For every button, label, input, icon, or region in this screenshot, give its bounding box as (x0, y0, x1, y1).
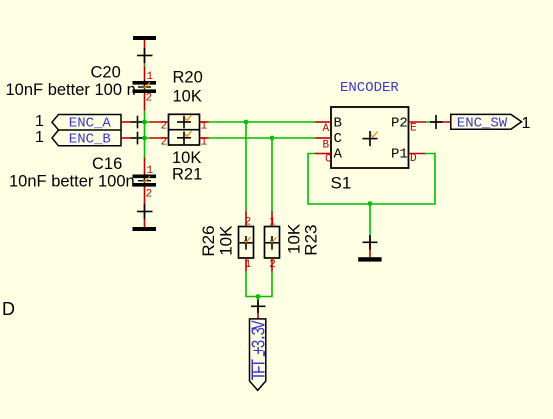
node junction ENC_B to R23 (270, 136, 275, 141)
R20 pin 1 (200, 121, 209, 123)
capacitor C16 (9, 155, 156, 227)
svg-text:1: 1 (245, 259, 252, 271)
svg-text:R23: R23 (302, 225, 321, 256)
node ENC_A junction (142, 120, 147, 125)
R21 pin 1 (200, 137, 209, 139)
svg-text:D: D (410, 153, 417, 165)
svg-text:ENC_B: ENC_B (69, 132, 111, 148)
resistor R23 (vertical) (265, 211, 321, 272)
capacitor C20 (6, 64, 157, 111)
ENC_B origin cross (131, 137, 144, 139)
svg-text:E: E (410, 122, 417, 134)
wire (C20 pin 2 down to ENC_A node) (144, 111, 146, 123)
C16 bottom plate (133, 183, 157, 187)
wire (junction down to GND) (369, 204, 371, 237)
C16 origin cross (138, 180, 151, 182)
svg-text:1: 1 (201, 137, 208, 149)
R20 pin 2 (150, 121, 169, 123)
R23 origin cross (266, 242, 279, 244)
resistor R20 pins and labels (150, 69, 209, 133)
svg-text:P2: P2 (391, 115, 408, 131)
svg-text:2: 2 (146, 189, 153, 201)
wire (ENC_A node to R20 pin 2) (145, 121, 150, 123)
S1 pin P1 stub (409, 153, 426, 155)
svg-text:D: D (2, 299, 15, 319)
C20 pin 1 (144, 66, 146, 81)
ENC_A pin stub (121, 121, 132, 123)
resistor R26 (vertical) (199, 211, 254, 272)
wire (down to R23) (271, 138, 273, 211)
svg-text:2: 2 (269, 259, 276, 271)
ENC_SW flag outline (451, 114, 522, 129)
svg-text:C16: C16 (92, 155, 122, 173)
svg-text:10nF better 100n: 10nF better 100n (9, 173, 135, 191)
power symbol TFT +3.3V (250, 300, 272, 391)
svg-text:1: 1 (35, 129, 44, 146)
resistor R21 pins and labels (150, 137, 209, 184)
C20 bottom plate (133, 89, 157, 93)
wire (U shape joining R26 and R23 bottoms) (246, 272, 272, 297)
svg-text:10nF better 100 n: 10nF better 100 n (6, 81, 136, 99)
S1 body (331, 107, 409, 168)
R26 pin 1 (245, 258, 247, 272)
TFT +3.3V origin cross (251, 305, 266, 307)
svg-text:10K: 10K (172, 149, 201, 167)
S1 pin B stub (315, 121, 331, 123)
net label ENC_SW (430, 114, 531, 131)
R23 pin 1 (271, 211, 273, 227)
svg-text:B: B (334, 115, 342, 131)
svg-text:2: 2 (146, 93, 153, 105)
S1 pin C stub (315, 137, 331, 139)
R21 origin cross (177, 137, 191, 139)
svg-text:C20: C20 (91, 64, 121, 82)
svg-text:2: 2 (161, 121, 168, 133)
C20 pin 2 (144, 93, 146, 111)
node ENC_B junction (142, 136, 147, 141)
ground symbol GND (top, above C20) (133, 36, 156, 64)
C20 top plate (133, 81, 157, 85)
R26 origin cross (240, 242, 253, 244)
R23 pin 2 (271, 258, 273, 272)
wire (GND to C20 pin 1) (144, 64, 146, 67)
wire (down to R26) (245, 122, 247, 211)
node junction ENC_A to R26 (244, 120, 249, 125)
svg-text:R26: R26 (199, 225, 218, 256)
ENC_A origin cross (131, 121, 144, 123)
svg-text:S1: S1 (331, 174, 352, 193)
C16 top plate (133, 175, 157, 179)
wire (ENC_B net: R21 pin 1 to S1 pin C) (209, 137, 316, 139)
svg-text:R21: R21 (172, 166, 202, 184)
svg-text:ENC_SW: ENC_SW (457, 116, 508, 132)
wire (ENC_B node to R21 pin 2) (145, 137, 150, 139)
C16 pin 1 (144, 158, 146, 175)
R26 pin 2 (245, 211, 247, 227)
svg-text:R20: R20 (173, 69, 203, 87)
svg-text:A: A (323, 123, 330, 135)
S1 pin A stub (315, 153, 331, 155)
net label ENC_B (35, 129, 144, 148)
ENC_SW pin stub (432, 121, 451, 123)
node junction on bottom wire (368, 201, 373, 206)
wire (vertical between ENC_A and ENC_B nodes) (144, 122, 146, 138)
svg-text:P1: P1 (391, 147, 408, 163)
svg-text:2: 2 (161, 137, 168, 149)
ground symbol GND (below S1) (358, 235, 381, 262)
svg-text:C: C (334, 131, 342, 147)
svg-text:A: A (334, 147, 343, 163)
wire (junction down to supply pin) (257, 297, 259, 303)
svg-text:ENCODER: ENCODER (340, 80, 399, 96)
wire (ENC_A net: R20 pin 1 to S1 pin B) (209, 121, 316, 123)
S1 pin P2 stub (409, 121, 427, 123)
svg-text:C: C (325, 154, 332, 166)
net label ENC_A (35, 113, 144, 132)
R20 origin cross (177, 121, 191, 123)
svg-text:10K: 10K (173, 88, 202, 106)
svg-text:B: B (323, 139, 330, 151)
svg-text:1: 1 (201, 121, 208, 133)
R26 body (239, 227, 254, 259)
resistor R20 (top box) and R21 (bottom box) (169, 114, 200, 145)
svg-text:ENC_A: ENC_A (69, 116, 112, 132)
C16 pin 2 (144, 187, 146, 227)
TFT +3.3V flag outline (250, 319, 266, 390)
C20 origin cross (138, 86, 151, 88)
svg-text:1: 1 (522, 115, 531, 132)
TFT +3.3V pin (257, 303, 259, 319)
ground symbol GND (below C16) (133, 204, 157, 231)
svg-text:TFT +3.3V: TFT +3.3V (250, 320, 271, 381)
wire (P2 to ENC_SW) (426, 121, 432, 123)
R21 pin 2 (150, 137, 169, 139)
R23 body (265, 227, 280, 259)
ENC_SW origin cross (430, 121, 443, 123)
encoder S1 (315, 80, 426, 193)
ENC_B pin stub (121, 137, 132, 139)
wire (S1 pin A loop to pin D) (308, 154, 435, 205)
wire (ENC_B node down to C16) (144, 138, 146, 158)
node junction to TFT +3.3V (256, 294, 261, 299)
S1 origin cross (363, 138, 378, 140)
svg-text:10K: 10K (216, 225, 235, 256)
svg-text:1: 1 (35, 113, 44, 130)
